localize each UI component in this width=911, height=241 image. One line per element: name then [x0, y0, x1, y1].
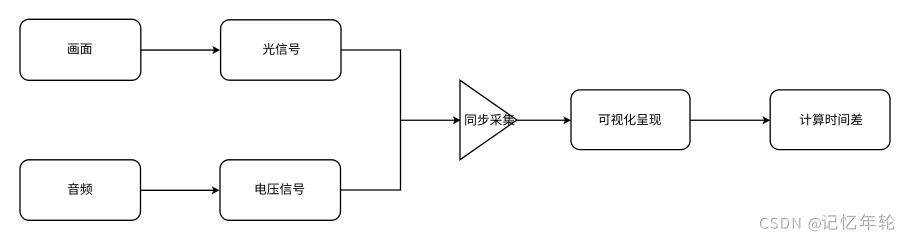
box 计算时间差	[770, 90, 890, 150]
label 可视化呈现	[599, 114, 661, 126]
label 电压信号	[256, 183, 305, 195]
label 同步采集	[465, 114, 514, 126]
label 光信号	[263, 43, 300, 55]
box 画面	[20, 19, 141, 80]
arrow 同步采集→可视化呈现	[517, 116, 571, 124]
arrow 音频→电压信号	[141, 186, 220, 194]
arrow 画面→光信号	[141, 46, 220, 54]
arrow junction→同步采集	[401, 116, 461, 124]
wire 光信号→junction	[341, 50, 401, 120]
arrow 可视化呈现→计算时间差	[690, 116, 770, 124]
watermark CSDN @记忆年轮	[760, 214, 896, 232]
label 音频	[68, 183, 92, 195]
label 画面	[68, 43, 92, 54]
triangle 同步采集	[460, 80, 517, 159]
label 计算时间差	[800, 113, 862, 125]
box 光信号	[221, 20, 341, 80]
box 电压信号	[220, 160, 341, 221]
box 音频	[20, 160, 141, 221]
box 可视化呈现	[571, 90, 690, 150]
wire 电压信号→junction	[341, 120, 401, 190]
